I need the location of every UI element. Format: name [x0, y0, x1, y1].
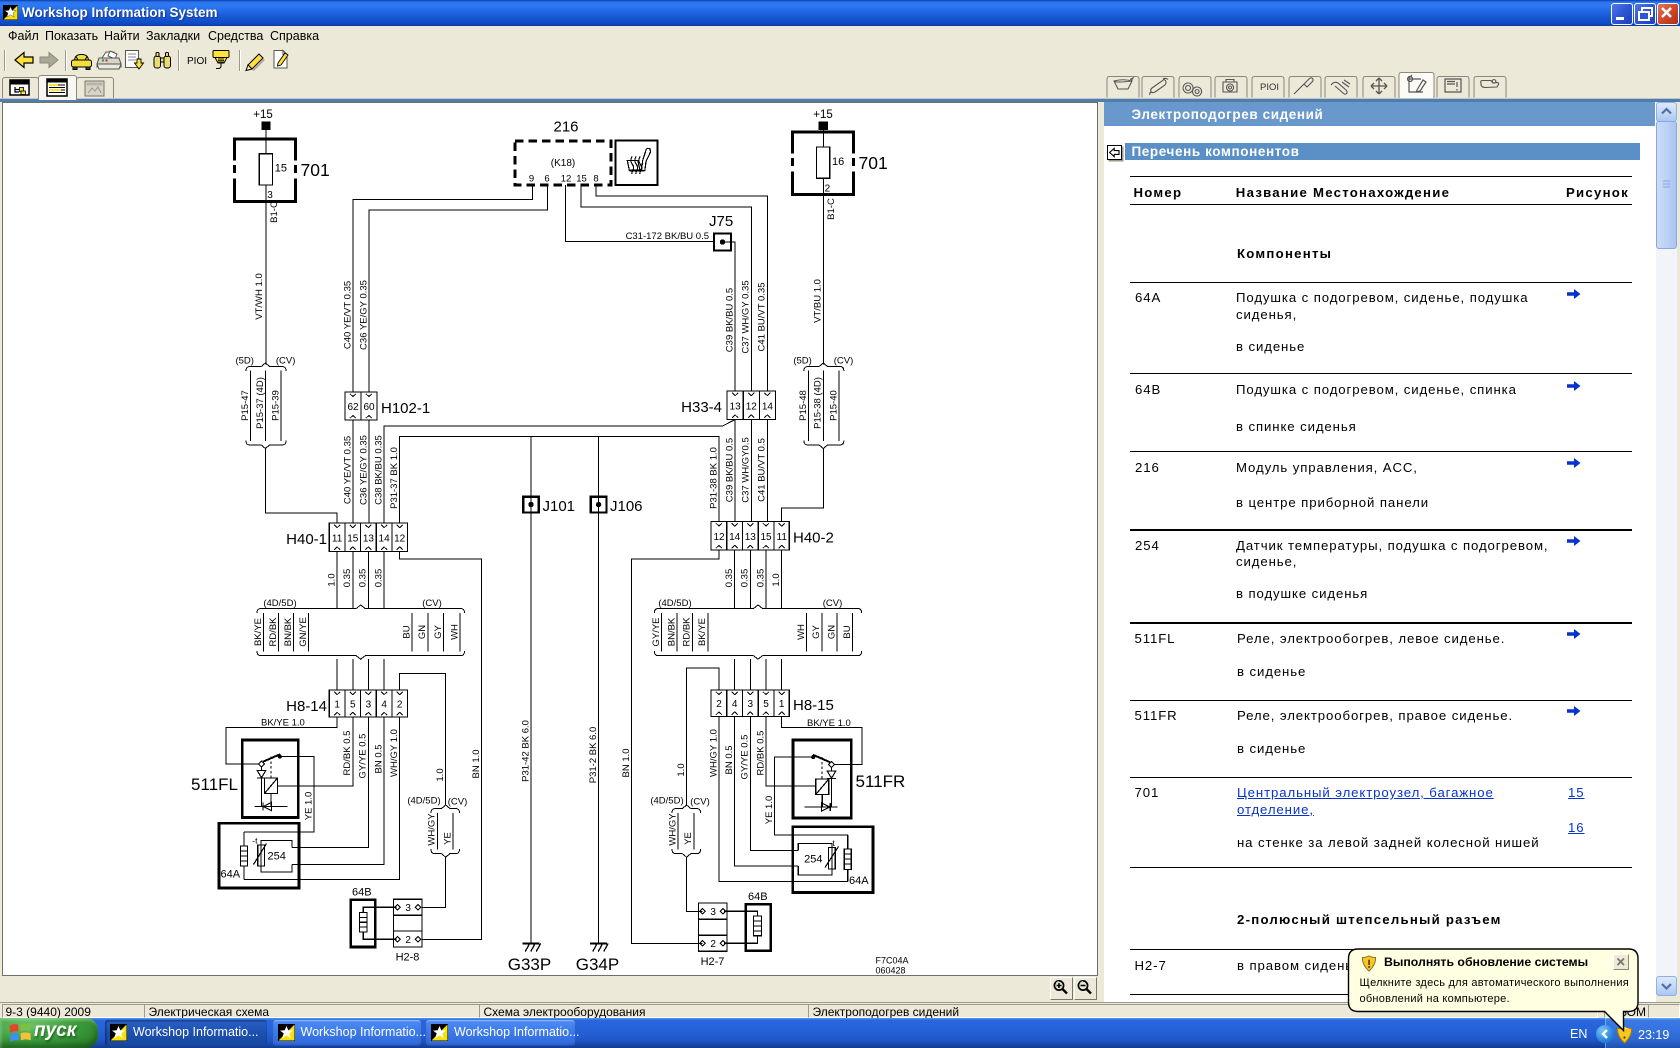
wire 216 pin12 to J75 (C31-172 BK/BU) — [566, 185, 715, 242]
svg-text:701: 701 — [301, 160, 330, 180]
svg-text:C41 BU/VT 0.35: C41 BU/VT 0.35 — [757, 282, 768, 351]
svg-text:GY/YE 0.5: GY/YE 0.5 — [358, 734, 369, 779]
alt-color brace right small (WH/GY | YE) — [650, 796, 709, 858]
svg-text:BN 1.0: BN 1.0 — [621, 748, 632, 777]
wire H8-15 pin2 top to H2-7 pin3 (WH/GY|YE 1.0) — [676, 668, 719, 911]
svg-text:5: 5 — [763, 699, 769, 710]
heated backrest pad 64B right — [746, 891, 771, 951]
svg-text:3: 3 — [267, 190, 273, 201]
svg-text:C39 BK/BU 0.5: C39 BK/BU 0.5 — [724, 288, 735, 352]
window buttons — [1611, 3, 1633, 25]
svg-text:C40 YE/VT 0.35: C40 YE/VT 0.35 — [342, 436, 353, 504]
svg-text:15: 15 — [275, 163, 287, 175]
bag with gear — [1223, 80, 1237, 93]
wire H8-15 pin5 to relay coil (RD/BK 0.5) — [755, 717, 816, 786]
svg-text:3: 3 — [748, 699, 754, 710]
svg-text:11: 11 — [777, 532, 788, 543]
diagram panel — [2, 102, 1098, 976]
svg-text:216: 216 — [553, 119, 578, 136]
svg-text:G34P: G34P — [576, 955, 619, 974]
svg-text:P15-39: P15-39 — [271, 390, 282, 421]
svg-text:BU: BU — [401, 625, 412, 638]
svg-text:C36 YE/GY 0.35: C36 YE/GY 0.35 — [358, 435, 369, 505]
svg-text:511FR: 511FR — [856, 772, 906, 791]
svg-text:701: 701 — [859, 153, 888, 173]
svg-text:(CV): (CV) — [448, 797, 468, 808]
svg-text:12: 12 — [746, 402, 758, 413]
temperature sensor 254 right — [798, 838, 838, 875]
svg-text:254: 254 — [804, 854, 822, 866]
wire H33-4 pin12 to H40-2 pin13 (C37 WH/GY) — [741, 420, 752, 522]
svg-text:64A: 64A — [221, 869, 241, 881]
svg-text:(4D/5D): (4D/5D) — [263, 598, 296, 609]
fuse box 701 left — [233, 138, 330, 202]
wire H8-14 pin4 to 254 sensor (BN 0.5) — [292, 717, 384, 864]
svg-text:13: 13 — [745, 532, 757, 543]
wire H8-14 pin5 to relay coil (RD/BK 0.5) — [278, 717, 354, 786]
relay 511FL switch — [263, 754, 282, 778]
wire H33-4 pin14 to H40-2 pin15 (C41 BU/VT) — [757, 420, 768, 522]
svg-text:H102-1: H102-1 — [381, 400, 430, 417]
wire VT/WH from 701 left down — [254, 202, 266, 365]
svg-text:WH/GY 1.0: WH/GY 1.0 — [389, 729, 400, 777]
svg-text:H8-14: H8-14 — [286, 698, 327, 715]
svg-text:64B: 64B — [352, 887, 372, 899]
connector H2-8 — [394, 899, 423, 963]
wires brace right to H8-15 — [735, 659, 782, 690]
app icon — [3, 5, 18, 20]
svg-text:13: 13 — [363, 534, 375, 545]
seat heater icon box — [616, 141, 658, 186]
relay 511FR coil — [816, 779, 829, 807]
toolbar row — [0, 46, 340, 74]
svg-text:WH: WH — [449, 624, 460, 640]
svg-text:YE 1.0: YE 1.0 — [764, 796, 775, 825]
tray — [1605, 1018, 1680, 1048]
svg-text:13: 13 — [730, 402, 742, 413]
svg-text:BN 0.5: BN 0.5 — [724, 745, 735, 774]
svg-text:GY: GY — [811, 624, 822, 638]
car seat — [1481, 80, 1499, 88]
wire 216 pin9 to H102-1 pin62 (C40 YE/VT) — [342, 185, 532, 392]
wire H40-1 pin12 to H2-8 pin2 (BN 1.0) — [400, 552, 482, 940]
wire H33-4 pin13 to H40-2 pin14 (C39 BK/BU) — [724, 420, 735, 522]
svg-text:64A: 64A — [849, 875, 869, 887]
menu bar — [8, 29, 39, 43]
svg-text:(K18): (K18) — [551, 158, 575, 169]
funnel — [1114, 78, 1133, 89]
svg-text:VT/BU 1.0: VT/BU 1.0 — [813, 279, 824, 323]
svg-text:YE 1.0: YE 1.0 — [303, 792, 314, 821]
svg-text:254: 254 — [268, 851, 286, 863]
svg-text:C41 BU/VT 0.5: C41 BU/VT 0.5 — [757, 438, 768, 502]
fuse 16 in 701 right — [817, 132, 845, 195]
svg-text:P15-38 (4D): P15-38 (4D) — [813, 377, 824, 429]
svg-text:12: 12 — [561, 174, 572, 185]
wire H8-14 pin2 top to H2-8 pin3 (WH/GY|YE 1.0) — [400, 674, 446, 908]
svg-text:(CV): (CV) — [422, 598, 442, 609]
node +15 terminal left — [253, 109, 273, 139]
svg-text:(4D/5D): (4D/5D) — [650, 796, 683, 807]
svg-text:4: 4 — [732, 699, 738, 710]
back arrow — [15, 53, 33, 68]
svg-text:0.35: 0.35 — [740, 569, 751, 588]
scanner — [213, 51, 229, 69]
wire H8-14 pin3 to 254 sensor (GY/YE 0.5) — [292, 717, 369, 848]
svg-text:RD/BK 0.5: RD/BK 0.5 — [342, 731, 353, 776]
svg-text:62: 62 — [347, 402, 359, 413]
separator — [178, 50, 180, 71]
svg-text:12: 12 — [713, 532, 725, 543]
highlighter — [246, 54, 265, 71]
right panel headers — [1104, 102, 1656, 127]
svg-text:12: 12 — [394, 534, 406, 545]
svg-text:GN: GN — [417, 625, 428, 639]
svg-text:15: 15 — [576, 174, 587, 185]
svg-text:P15-48: P15-48 — [798, 390, 809, 421]
svg-text:B1-C: B1-C — [269, 201, 280, 223]
wire H8-15 pin1 to relay 511FR (BK/YE 1.0) — [782, 717, 862, 765]
svg-text:WH/GY: WH/GY — [668, 813, 679, 846]
temperature sensor 254 left — [252, 836, 292, 873]
svg-text:VT/WH 1.0: VT/WH 1.0 — [254, 273, 265, 319]
svg-text:(CV): (CV) — [276, 356, 296, 367]
svg-text:0.35: 0.35 — [755, 569, 766, 588]
relay 511FR — [793, 740, 905, 818]
relay 511FL internal bottom wire — [255, 806, 288, 808]
svg-text:C40 YE/VT 0.35: C40 YE/VT 0.35 — [342, 281, 353, 349]
connector H33-4 — [681, 391, 775, 420]
svg-text:-t: -t — [252, 836, 258, 846]
svg-text:BN 1.0: BN 1.0 — [471, 749, 482, 778]
svg-text:H40-2: H40-2 — [793, 530, 834, 547]
left groove — [4, 50, 6, 71]
svg-text:(4D/5D): (4D/5D) — [407, 796, 440, 807]
svg-text:C31-172 BK/BU 0.5: C31-172 BK/BU 0.5 — [626, 231, 709, 242]
tab row — [2, 77, 39, 99]
relay 511FR diode bottom — [822, 803, 831, 811]
relay 511FL — [191, 740, 298, 818]
svg-text:15: 15 — [347, 534, 359, 545]
zoom in button — [1050, 977, 1073, 1000]
connector H102-1 — [345, 392, 430, 420]
title bar — [0, 0, 1680, 26]
svg-text:2: 2 — [716, 699, 722, 710]
wire H33-4 pin13 to H40-1 pin14 (C38 BK/BU) — [373, 420, 735, 524]
tray shield icon — [1616, 1026, 1633, 1044]
svg-text:15: 15 — [760, 532, 772, 543]
svg-text:5: 5 — [350, 700, 356, 711]
zoom out button — [1074, 977, 1097, 1000]
screwdriver — [1294, 78, 1313, 94]
svg-text:WH: WH — [796, 624, 807, 640]
wire H8-14 pin2 to 64A element (WH/GY 1.0) — [244, 717, 400, 880]
svg-text:BK/YE: BK/YE — [253, 618, 264, 646]
wire ground bus H40-1 pin12 to H40-2 pin12 (P31-37/P31-38 BK) — [389, 437, 719, 523]
svg-text:8: 8 — [593, 174, 598, 185]
heated seat pad 64A right — [793, 827, 873, 893]
svg-text:+15: +15 — [813, 109, 833, 121]
wire H8-14 pin1 to relay 511FL (BK/YE 1.0) — [226, 717, 337, 764]
wrench — [1150, 78, 1168, 95]
heating element in 64B right — [724, 911, 761, 943]
svg-text:P15-37 (4D): P15-37 (4D) — [255, 377, 266, 429]
relay 511FR pin diamond — [829, 762, 835, 768]
svg-text:RD/BK 0.5: RD/BK 0.5 — [755, 731, 766, 776]
wire H40-1 pin11 down (1.0) — [326, 552, 337, 609]
svg-text:H2-8: H2-8 — [396, 952, 420, 964]
svg-text:P15-47: P15-47 — [240, 390, 251, 421]
printer — [97, 51, 121, 69]
svg-text:GY/YE: GY/YE — [651, 617, 662, 646]
svg-text:0.35: 0.35 — [358, 569, 369, 588]
svg-text:GN/YE: GN/YE — [298, 617, 309, 647]
svg-text:2: 2 — [710, 939, 716, 950]
svg-text:J106: J106 — [610, 498, 643, 515]
svg-text:1.0: 1.0 — [326, 573, 337, 586]
page with pencil — [274, 51, 288, 69]
svg-text:H40-1: H40-1 — [286, 531, 327, 548]
svg-text:60: 60 — [363, 402, 375, 413]
svg-text:YE: YE — [683, 832, 694, 845]
relay 511FR internal bottom wire — [805, 806, 838, 808]
separator — [65, 50, 67, 71]
svg-text:WH/GY: WH/GY — [427, 813, 438, 846]
svg-text:C37 WH/GY 0.35: C37 WH/GY 0.35 — [741, 280, 752, 353]
doc with arrow — [126, 51, 144, 70]
svg-text:9: 9 — [529, 174, 534, 185]
svg-text:2: 2 — [397, 700, 403, 711]
svg-text:B1-C: B1-C — [826, 198, 837, 220]
svg-text:1: 1 — [334, 700, 340, 711]
move cross — [1371, 78, 1387, 94]
taskbar — [0, 1018, 1680, 1048]
svg-text:H33-4: H33-4 — [681, 399, 722, 416]
svg-text:GY/YE 0.5: GY/YE 0.5 — [740, 735, 751, 780]
svg-text:PIOI: PIOI — [1260, 82, 1279, 93]
relay 511FL diode top — [257, 767, 266, 807]
doc with text — [1445, 79, 1461, 92]
svg-text:0.35: 0.35 — [724, 569, 735, 588]
heating element in 64A right — [844, 835, 851, 882]
svg-text:64B: 64B — [748, 891, 768, 903]
wire 216 pin6 to H102-1 pin60 (C36 YE/GY) — [358, 185, 547, 392]
svg-text:0.35: 0.35 — [373, 569, 384, 588]
alt-color brace left small (WH/GY | YE) — [407, 796, 467, 858]
svg-text:+15: +15 — [253, 109, 273, 121]
balloon — [1340, 940, 1640, 1040]
svg-text:P31-38 BK 1.0: P31-38 BK 1.0 — [708, 447, 719, 509]
wire from brace to H40-2 pin 11 — [782, 449, 824, 522]
right toolbar — [1100, 70, 1520, 98]
heated backrest pad 64B left — [351, 887, 376, 948]
alt-pin brace P15 left — [235, 356, 295, 449]
svg-text:511FL: 511FL — [191, 775, 238, 794]
svg-text:4: 4 — [381, 700, 387, 711]
svg-text:(5D): (5D) — [793, 356, 811, 367]
relay 511FR diode top — [827, 768, 836, 808]
car icon — [72, 55, 92, 70]
wires H40-2 to brace right — [724, 550, 782, 608]
table text — [1134, 185, 1183, 200]
ground G34P — [576, 944, 619, 975]
alt-pin brace P15 right — [793, 356, 853, 449]
wire 216 pin8 to H33-4 pin14 (C41 BU/VT) — [596, 185, 768, 391]
wire VT/BU from 701 right down — [813, 195, 824, 365]
drawing number F7C04A 060428 — [876, 956, 909, 976]
wire relay 511FL switch to 64A element (YE 1.0) — [244, 757, 314, 832]
wire H8-15 pin4 to 254 sensor (BN 0.5) — [724, 717, 798, 867]
fuse 15 in 701 left — [259, 139, 287, 202]
junction J106 — [588, 437, 643, 944]
svg-text:1.0: 1.0 — [676, 763, 687, 776]
connector H2-7 — [698, 903, 727, 968]
junction J101 — [520, 437, 575, 944]
binoculars — [154, 53, 171, 69]
svg-text:(CV): (CV) — [834, 356, 854, 367]
heating element in 64A left — [241, 832, 248, 880]
wire H102-1 pin62 to H40-1 pin15 (C40 YE/VT) — [342, 420, 353, 523]
separator — [239, 50, 241, 71]
wire from brace to H40-1 pin 11 — [265, 449, 337, 524]
svg-text:(4D/5D): (4D/5D) — [658, 598, 691, 609]
forward arrow — [40, 53, 58, 68]
wire H102-1 pin60 to H40-1 pin13 (C36 YE/GY) — [358, 420, 369, 523]
svg-text:GN: GN — [827, 625, 838, 639]
svg-text:P15-40: P15-40 — [828, 390, 839, 421]
table rules — [1130, 176, 1632, 177]
svg-text:(CV): (CV) — [823, 598, 843, 609]
junction J75 — [709, 213, 733, 251]
svg-text:F7C04A: F7C04A — [876, 956, 909, 966]
wire-color brace right (4D/5D | CV) — [651, 598, 862, 659]
svg-text:14: 14 — [729, 532, 741, 543]
svg-text:H8-15: H8-15 — [793, 697, 834, 714]
page+pencil (active) — [1408, 75, 1426, 92]
relay 511FL pin diamond — [259, 761, 265, 767]
svg-text:BN 0.5: BN 0.5 — [373, 744, 384, 773]
relay 511FR switch — [811, 755, 830, 779]
wire H8-15 pin3 to 254 sensor (GY/YE 0.5) — [740, 717, 799, 851]
svg-text:1: 1 — [779, 699, 785, 710]
svg-text:14: 14 — [379, 534, 391, 545]
tools — [1331, 80, 1350, 94]
relay 511FL diode bottom — [263, 802, 272, 810]
wire 216 pin15 to H33-4 pin12 (C37 WH/GY) — [581, 185, 752, 391]
svg-text:GY: GY — [433, 624, 444, 638]
wires brace to H8-14 — [337, 659, 384, 690]
wire H40-1 pin14 down (0.35) — [373, 552, 384, 609]
svg-text:C38 BK/BU 0.35: C38 BK/BU 0.35 — [373, 435, 384, 505]
tray round language icon — [1596, 1025, 1614, 1043]
scrollbar — [1656, 102, 1677, 995]
svg-text:C37 WH/GY0.5: C37 WH/GY0.5 — [741, 437, 752, 502]
svg-text:11: 11 — [332, 534, 343, 545]
svg-text:2: 2 — [825, 184, 831, 195]
svg-text:BN/BK: BN/BK — [283, 617, 294, 646]
svg-text:1.0: 1.0 — [771, 573, 782, 586]
svg-text:J75: J75 — [709, 213, 733, 230]
node +15 terminal right — [813, 109, 833, 132]
svg-text:(5D): (5D) — [235, 356, 253, 367]
svg-text:RD/BK: RD/BK — [682, 617, 693, 647]
svg-text:3: 3 — [710, 907, 716, 918]
heated seat pad 64A left — [219, 823, 299, 888]
connector H8-15 — [711, 690, 834, 717]
wire H40-1 pin13 down (0.35) — [358, 552, 369, 609]
svg-text:C39 BK/BU 0.5: C39 BK/BU 0.5 — [724, 438, 735, 502]
connector H8-14 — [286, 690, 407, 717]
wire relay 511FR switch to 64A element (YE 1.0) — [764, 757, 848, 835]
svg-text:16: 16 — [832, 156, 844, 168]
svg-text:P31-37 BK 1.0: P31-37 BK 1.0 — [389, 447, 400, 509]
wire J75 to H33-4 pin13 (C39 BK/BU) — [723, 242, 736, 391]
svg-text:BK/YE 1.0: BK/YE 1.0 — [261, 718, 305, 729]
svg-text:G33P: G33P — [508, 955, 551, 974]
svg-text:BK/YE 1.0: BK/YE 1.0 — [807, 718, 851, 729]
svg-text:060428: 060428 — [876, 966, 906, 976]
wire H8-15 pin2 to 64A element (WH/GY 1.0) — [708, 717, 848, 882]
svg-text:6: 6 — [544, 174, 549, 185]
svg-text:2: 2 — [405, 935, 411, 946]
gears — [1183, 83, 1202, 96]
heating element in 64B left — [360, 907, 397, 939]
svg-text:YE: YE — [442, 832, 453, 845]
status bar — [0, 1002, 1680, 1003]
svg-text:P31-2 BK 6.0: P31-2 BK 6.0 — [588, 727, 599, 784]
right panel bg — [1104, 102, 1656, 1002]
start button — [0, 1018, 98, 1048]
svg-text:P31-42 BK 6.0: P31-42 BK 6.0 — [520, 720, 531, 782]
svg-text:3: 3 — [405, 903, 411, 914]
ground G33P — [508, 944, 551, 975]
svg-text:1.0: 1.0 — [435, 768, 446, 781]
control module 216 (K18) — [515, 119, 611, 186]
svg-text:BN/BK: BN/BK — [666, 617, 677, 646]
wire-color brace left (4D/5D | CV) — [253, 598, 465, 659]
wire H40-1 pin15 down (0.35) — [342, 552, 353, 609]
svg-text:WH/GY 1.0: WH/GY 1.0 — [708, 729, 719, 777]
connector H40-2 — [711, 522, 834, 551]
connector H40-1 — [286, 523, 407, 552]
svg-text:(CV): (CV) — [690, 797, 710, 808]
svg-text:RD/BK: RD/BK — [268, 617, 279, 647]
svg-text:BU: BU — [842, 625, 853, 638]
relay 511FL coil — [265, 778, 278, 807]
svg-text:J101: J101 — [543, 498, 576, 515]
blue separator under toolbars — [0, 98, 1680, 100]
svg-text:14: 14 — [762, 402, 774, 413]
svg-text:H2-7: H2-7 — [701, 956, 725, 968]
wire H40-2 pin12 to H2-7 pin2 (BN 1.0) — [621, 550, 719, 943]
svg-text:0.35: 0.35 — [342, 569, 353, 588]
fuse box 701 right — [791, 131, 888, 195]
svg-text:BK/YE: BK/YE — [697, 618, 708, 646]
svg-text:3: 3 — [366, 700, 372, 711]
task buttons — [105, 1020, 267, 1046]
svg-text:C36 YE/GY 0.35: C36 YE/GY 0.35 — [358, 280, 369, 350]
